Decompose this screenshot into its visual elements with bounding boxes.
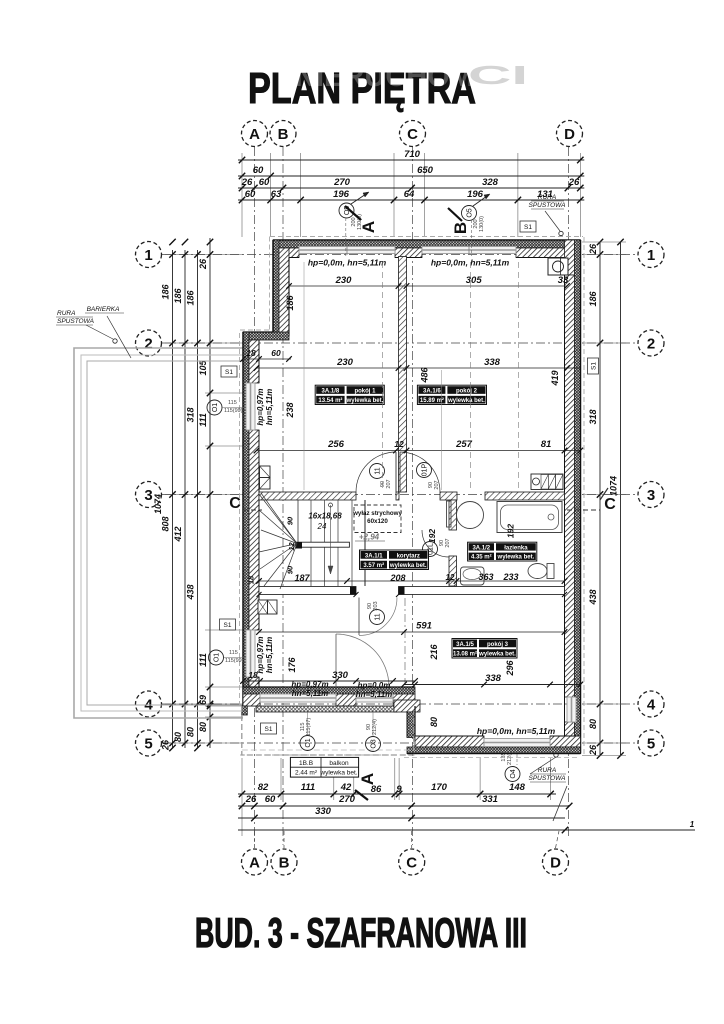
svg-text:80: 80 <box>429 717 439 727</box>
svg-text:hn=5,11m: hn=5,11m <box>265 637 274 674</box>
svg-text:B: B <box>451 222 470 234</box>
svg-text:419: 419 <box>550 370 560 386</box>
svg-text:186: 186 <box>588 291 598 307</box>
svg-text:208: 208 <box>389 573 405 583</box>
svg-text:16x18,68: 16x18,68 <box>308 512 342 521</box>
svg-text:186: 186 <box>186 290 196 306</box>
svg-text:hp=0,97m: hp=0,97m <box>291 680 328 689</box>
svg-text:105: 105 <box>198 360 208 376</box>
svg-text:233: 233 <box>502 572 518 582</box>
svg-text:24: 24 <box>317 522 327 531</box>
svg-text:BARIERKA: BARIERKA <box>87 306 120 313</box>
svg-text:207: 207 <box>445 538 451 547</box>
svg-text:26: 26 <box>161 739 171 751</box>
svg-text:1: 1 <box>690 820 695 829</box>
svg-text:710: 710 <box>404 149 421 160</box>
svg-text:238: 238 <box>285 402 295 418</box>
svg-text:15.89 m²: 15.89 m² <box>420 397 444 404</box>
svg-text:O3: O3 <box>371 739 378 748</box>
svg-text:hp=0,0m, hn=5,11m: hp=0,0m, hn=5,11m <box>308 258 387 268</box>
svg-text:korytarz: korytarz <box>397 553 420 559</box>
svg-text:D: D <box>550 854 561 871</box>
svg-text:318: 318 <box>588 409 598 424</box>
svg-text:S1: S1 <box>591 362 598 370</box>
svg-text:hn=5,11m: hn=5,11m <box>292 689 329 698</box>
svg-text:3A.1/1: 3A.1/1 <box>365 553 383 559</box>
svg-text:230: 230 <box>335 275 353 286</box>
svg-text:1: 1 <box>144 247 152 264</box>
svg-text:2: 2 <box>647 335 655 352</box>
svg-text:486: 486 <box>420 367 430 384</box>
svg-text:11: 11 <box>375 613 382 620</box>
svg-text:192: 192 <box>427 529 437 543</box>
svg-text:CI: CI <box>468 60 528 90</box>
svg-text:80: 80 <box>198 722 208 732</box>
svg-text:80: 80 <box>588 719 598 729</box>
svg-text:115: 115 <box>228 400 237 406</box>
svg-text:3A.1/2: 3A.1/2 <box>472 545 490 551</box>
svg-text:338: 338 <box>484 357 501 368</box>
svg-text:42: 42 <box>340 782 352 793</box>
svg-text:187: 187 <box>294 573 310 583</box>
svg-text:305: 305 <box>466 275 483 286</box>
svg-text:hp=0,0m: hp=0,0m <box>358 681 391 690</box>
svg-text:C: C <box>604 496 616 513</box>
svg-text:D: D <box>564 126 575 143</box>
svg-text:5: 5 <box>647 735 655 752</box>
svg-text:60x120: 60x120 <box>367 518 388 525</box>
svg-text:9: 9 <box>396 784 402 795</box>
svg-text:12: 12 <box>287 542 296 551</box>
svg-text:B: B <box>279 854 290 871</box>
svg-text:A: A <box>249 126 260 143</box>
svg-text:C: C <box>406 854 417 871</box>
svg-text:3.57 m²: 3.57 m² <box>363 562 384 569</box>
svg-text:192: 192 <box>506 524 516 538</box>
svg-text:270: 270 <box>333 177 351 188</box>
svg-text:4: 4 <box>647 696 656 713</box>
svg-text:hn=5,11m: hn=5,11m <box>265 389 274 426</box>
svg-text:RURA: RURA <box>57 310 75 317</box>
svg-text:1074: 1074 <box>153 494 163 514</box>
svg-text:5: 5 <box>144 735 152 752</box>
svg-text:4.35 m²: 4.35 m² <box>471 554 492 561</box>
svg-text:270: 270 <box>338 794 356 805</box>
svg-text:176: 176 <box>287 657 297 673</box>
svg-text:207: 207 <box>434 480 440 489</box>
svg-text:230: 230 <box>336 357 354 368</box>
svg-text:60: 60 <box>253 165 264 176</box>
svg-text:wylewka bet.: wylewka bet. <box>447 398 485 404</box>
svg-text:60: 60 <box>265 794 276 805</box>
svg-text:S1: S1 <box>225 369 233 376</box>
svg-text:pokój 3: pokój 3 <box>487 642 509 648</box>
svg-text:130(0): 130(0) <box>479 216 485 232</box>
svg-text:196: 196 <box>333 189 350 200</box>
svg-text:111: 111 <box>301 782 315 793</box>
svg-text:+2,94: +2,94 <box>359 533 380 542</box>
svg-text:257: 257 <box>455 439 473 450</box>
svg-text:650: 650 <box>417 165 434 176</box>
svg-text:S1: S1 <box>224 622 232 629</box>
svg-text:O1: O1 <box>212 403 219 412</box>
svg-text:SPUSTOWA: SPUSTOWA <box>57 318 94 325</box>
svg-text:01P: 01P <box>422 463 429 476</box>
svg-text:13.54 m²: 13.54 m² <box>318 397 342 404</box>
svg-text:63: 63 <box>271 189 282 200</box>
svg-text:hp=0,97m: hp=0,97m <box>256 388 265 425</box>
svg-text:186: 186 <box>173 288 183 304</box>
svg-text:RURA: RURA <box>538 767 556 774</box>
svg-text:60: 60 <box>271 348 281 358</box>
svg-text:338: 338 <box>485 673 502 684</box>
svg-text:186: 186 <box>161 284 171 300</box>
svg-text:111: 111 <box>198 653 208 667</box>
svg-text:64: 64 <box>404 189 415 200</box>
svg-text:wylewka bet.: wylewka bet. <box>346 398 384 404</box>
svg-text:3: 3 <box>144 487 152 504</box>
svg-text:S1: S1 <box>265 726 273 733</box>
svg-text:26: 26 <box>241 177 253 188</box>
svg-text:115(97): 115(97) <box>306 718 312 737</box>
svg-text:18: 18 <box>247 575 256 584</box>
svg-text:26: 26 <box>198 258 208 270</box>
svg-text:A: A <box>359 221 378 233</box>
svg-text:186: 186 <box>285 295 295 311</box>
svg-text:203: 203 <box>373 601 379 610</box>
svg-text:A: A <box>249 854 260 871</box>
svg-text:808: 808 <box>161 516 171 531</box>
svg-text:170: 170 <box>431 782 448 793</box>
svg-text:wyłaz strychowy: wyłaz strychowy <box>352 510 402 517</box>
svg-text:O5: O5 <box>467 208 474 217</box>
svg-text:438: 438 <box>186 584 196 600</box>
svg-text:82: 82 <box>258 782 269 793</box>
svg-text:SPUSTOWA: SPUSTOWA <box>529 202 566 209</box>
svg-text:3A.1/8: 3A.1/8 <box>322 388 340 394</box>
svg-text:33: 33 <box>558 275 569 286</box>
svg-text:328: 328 <box>482 177 499 188</box>
svg-text:296: 296 <box>505 660 515 677</box>
svg-text:wylewka bet.: wylewka bet. <box>389 563 427 569</box>
svg-text:O4: O4 <box>510 769 517 778</box>
svg-text:wylewka bet.: wylewka bet. <box>497 555 535 561</box>
svg-text:18: 18 <box>246 348 256 358</box>
svg-text:26: 26 <box>245 794 257 805</box>
svg-text:S1: S1 <box>524 224 532 231</box>
svg-text:115(99): 115(99) <box>224 408 243 414</box>
svg-text:pokój 1: pokój 1 <box>354 388 376 394</box>
svg-text:256: 256 <box>327 439 345 450</box>
svg-text:O1: O1 <box>305 738 312 747</box>
svg-text:B: B <box>278 126 289 143</box>
svg-text:łazienka: łazienka <box>504 545 528 551</box>
svg-text:1074: 1074 <box>609 476 619 496</box>
svg-text:3A.1/6: 3A.1/6 <box>423 388 441 394</box>
svg-text:111: 111 <box>198 413 208 427</box>
svg-text:hp=0,0m, hn=5,11m: hp=0,0m, hn=5,11m <box>431 258 510 268</box>
svg-text:81: 81 <box>541 439 552 450</box>
svg-text:330: 330 <box>332 670 349 681</box>
svg-text:363: 363 <box>478 572 493 582</box>
svg-text:591: 591 <box>416 621 432 632</box>
svg-text:hp=0,97m: hp=0,97m <box>256 636 265 673</box>
svg-text:3: 3 <box>647 487 655 504</box>
svg-text:11: 11 <box>375 467 382 474</box>
svg-text:115: 115 <box>229 650 238 656</box>
svg-text:A: A <box>358 773 377 785</box>
svg-text:wylewka bet.: wylewka bet. <box>319 770 357 777</box>
svg-text:C: C <box>229 495 241 512</box>
svg-text:69: 69 <box>198 695 208 705</box>
svg-text:90: 90 <box>286 565 295 574</box>
svg-text:1B.B: 1B.B <box>299 760 313 767</box>
svg-text:13.08 m²: 13.08 m² <box>453 651 477 658</box>
svg-text:12: 12 <box>394 439 404 449</box>
svg-text:196: 196 <box>467 189 484 200</box>
svg-text:SPUSTOWA: SPUSTOWA <box>529 775 566 782</box>
svg-text:148: 148 <box>509 782 526 793</box>
svg-text:3A.1/5: 3A.1/5 <box>456 642 474 648</box>
svg-text:207: 207 <box>386 479 392 488</box>
svg-text:438: 438 <box>588 589 598 605</box>
svg-text:412: 412 <box>173 526 183 542</box>
svg-text:hn=5,11m: hn=5,11m <box>356 690 393 699</box>
svg-text:330: 330 <box>315 806 332 817</box>
svg-text:C: C <box>407 126 418 143</box>
svg-text:2: 2 <box>144 335 152 352</box>
svg-text:318: 318 <box>186 407 196 422</box>
svg-text:RURA: RURA <box>538 194 556 201</box>
svg-text:26: 26 <box>588 243 598 255</box>
svg-text:O1: O1 <box>214 653 221 662</box>
svg-text:hp=0,0m, hn=5,11m: hp=0,0m, hn=5,11m <box>477 726 556 736</box>
svg-text:2.44 m²: 2.44 m² <box>295 770 318 777</box>
svg-text:12: 12 <box>446 573 455 582</box>
svg-text:26: 26 <box>568 177 580 188</box>
svg-text:60: 60 <box>245 189 256 200</box>
svg-text:BUD. 3 - SZAFRANOWA III: BUD. 3 - SZAFRANOWA III <box>195 909 527 956</box>
svg-text:26: 26 <box>588 744 598 756</box>
svg-text:wylewka bet.: wylewka bet. <box>478 652 516 658</box>
svg-text:331: 331 <box>482 794 498 805</box>
svg-text:80: 80 <box>186 727 196 737</box>
svg-text:1: 1 <box>647 247 655 264</box>
svg-text:60: 60 <box>259 177 270 188</box>
svg-text:80: 80 <box>173 732 183 742</box>
svg-text:balkon: balkon <box>329 760 349 767</box>
svg-text:216: 216 <box>429 644 439 661</box>
svg-text:115(99): 115(99) <box>225 658 244 664</box>
svg-text:pokój 2: pokój 2 <box>456 388 478 394</box>
svg-text:90: 90 <box>286 516 295 525</box>
